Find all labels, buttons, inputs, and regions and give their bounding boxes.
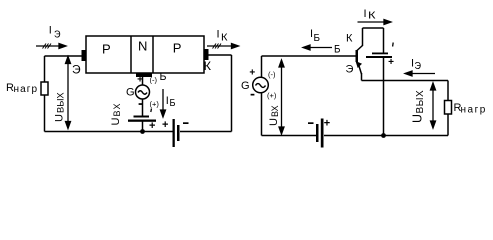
svg-text:нагр: нагр bbox=[14, 84, 39, 95]
svg-text:Р: Р bbox=[102, 42, 111, 57]
svg-text:+: + bbox=[162, 119, 168, 131]
svg-text:+: + bbox=[249, 68, 255, 79]
svg-text:Б: Б bbox=[170, 98, 176, 109]
svg-text:ВЫХ: ВЫХ bbox=[56, 92, 66, 113]
svg-text:Э: Э bbox=[415, 61, 422, 72]
svg-text:(+): (+) bbox=[150, 100, 160, 109]
svg-text:+: + bbox=[388, 57, 394, 68]
svg-text:Б: Б bbox=[160, 71, 167, 83]
svg-text:ВХ: ВХ bbox=[112, 102, 122, 116]
svg-text:(+): (+) bbox=[267, 91, 277, 100]
svg-text:G: G bbox=[241, 80, 250, 92]
svg-text:К: К bbox=[368, 11, 376, 22]
svg-text:К: К bbox=[221, 32, 228, 43]
svg-text:(-): (-) bbox=[150, 76, 158, 85]
svg-text:ВЫХ: ВЫХ bbox=[415, 90, 426, 114]
svg-text:нагр: нагр bbox=[461, 105, 487, 116]
svg-text:Р: Р bbox=[173, 40, 182, 55]
svg-text:Б: Б bbox=[334, 44, 341, 56]
svg-text:Б: Б bbox=[314, 33, 321, 44]
svg-text:Э: Э bbox=[72, 63, 81, 77]
svg-text:I: I bbox=[217, 28, 220, 40]
svg-text:+: + bbox=[324, 117, 330, 129]
svg-text:Э: Э bbox=[346, 64, 354, 76]
svg-text:U: U bbox=[411, 114, 425, 123]
svg-text:Э: Э bbox=[54, 29, 61, 40]
svg-text:+: + bbox=[149, 120, 155, 132]
svg-text:+: + bbox=[137, 75, 143, 86]
svg-text:ВХ: ВХ bbox=[270, 105, 280, 117]
svg-text:N: N bbox=[138, 38, 147, 53]
svg-text:U: U bbox=[54, 114, 66, 122]
svg-text:I: I bbox=[49, 24, 52, 36]
svg-text:I: I bbox=[364, 8, 367, 20]
svg-text:(-): (-) bbox=[268, 70, 276, 79]
svg-text:К: К bbox=[346, 33, 353, 45]
svg-text:U: U bbox=[110, 118, 122, 126]
svg-text:U: U bbox=[268, 118, 280, 126]
svg-text:G: G bbox=[126, 87, 135, 99]
svg-text:I: I bbox=[166, 95, 169, 107]
svg-text:К: К bbox=[204, 61, 212, 73]
